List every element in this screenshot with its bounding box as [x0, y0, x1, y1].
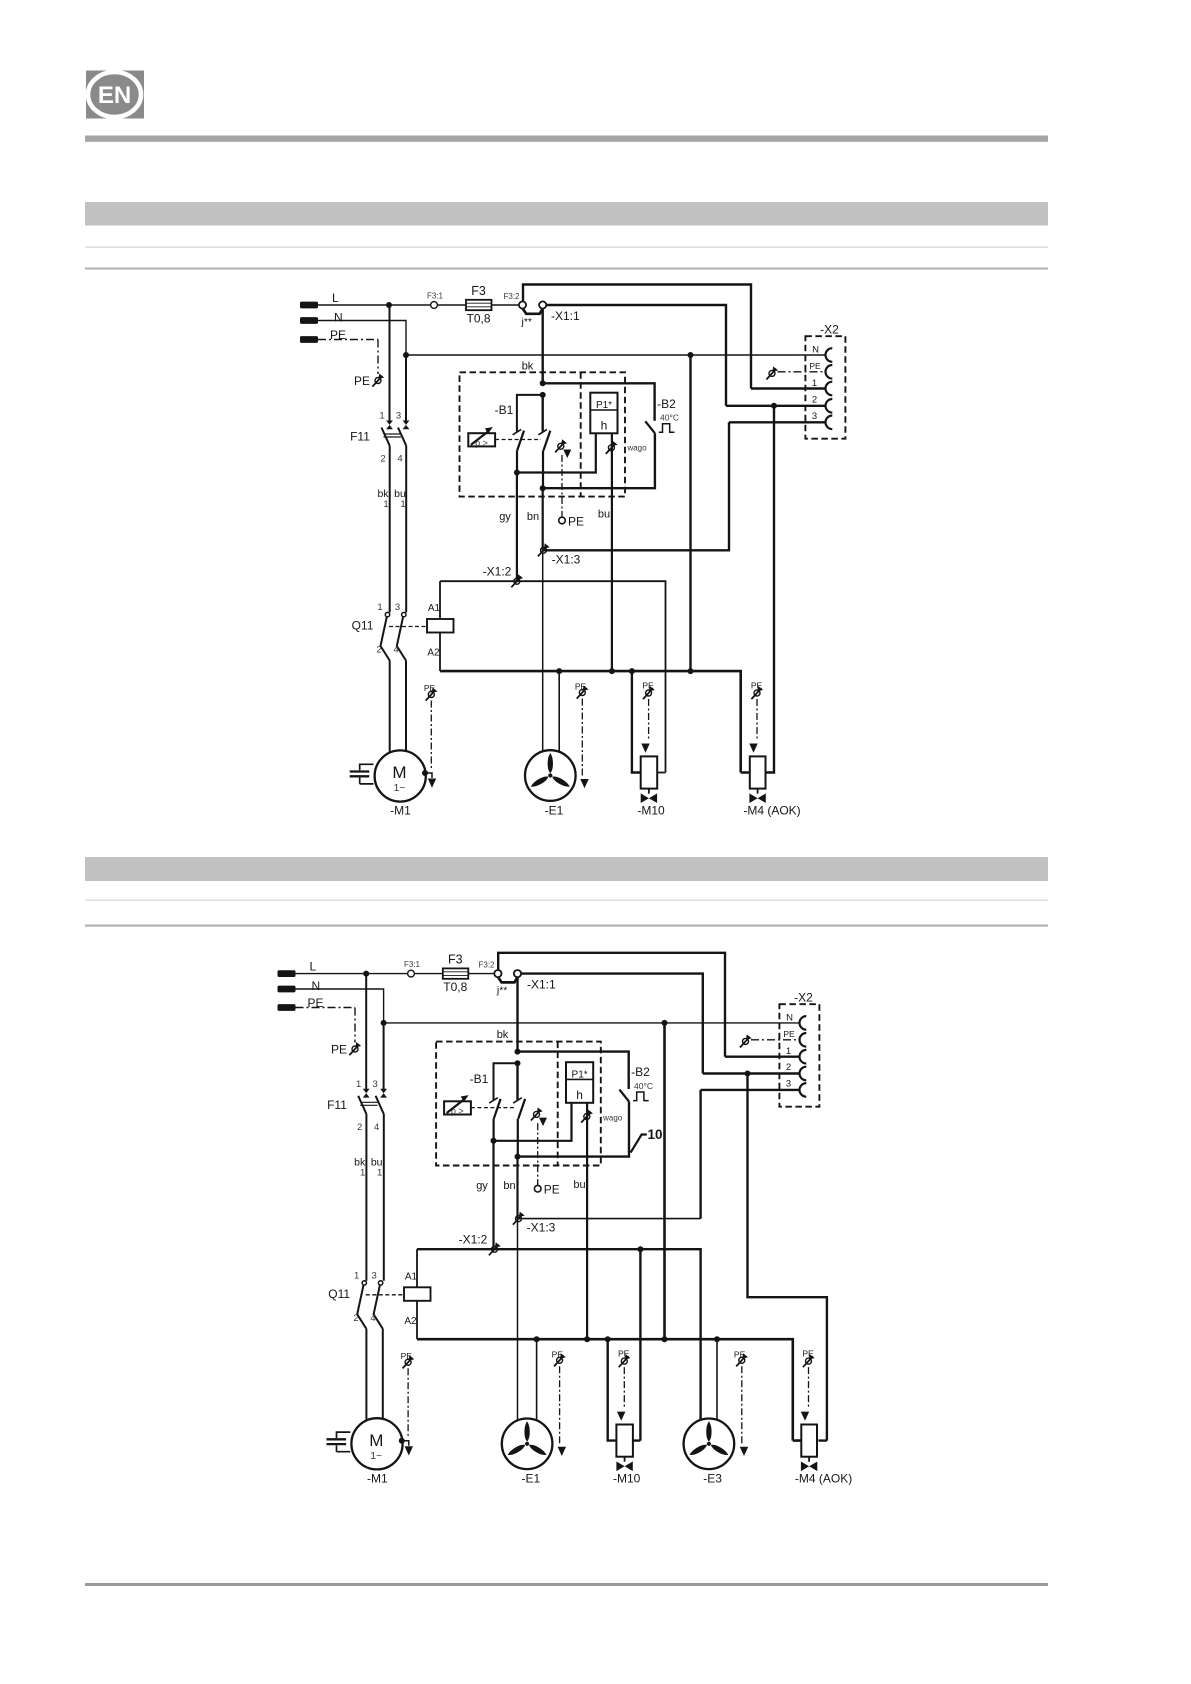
- svg-text:gy: gy: [476, 1180, 488, 1192]
- fuse F3: [466, 300, 492, 310]
- EN badge: [86, 71, 144, 119]
- svg-text:PE: PE: [331, 1043, 347, 1057]
- wire X1:2: [440, 581, 666, 772]
- wire neutral bus A2: [417, 1339, 801, 1440]
- svg-text:j**: j**: [496, 985, 508, 997]
- breaker F11 pole 2: [383, 1023, 385, 1089]
- wire N supply: [318, 321, 799, 356]
- svg-text:T0,8: T0,8: [443, 980, 467, 994]
- wire N vertical: [663, 1023, 666, 1339]
- wire PE dash-dot: [296, 1008, 356, 1043]
- wire to hour counter: [517, 433, 596, 472]
- node M10 left: [629, 668, 635, 674]
- svg-text:wago: wago: [626, 444, 647, 453]
- contactor Q11 pole 1: [385, 612, 389, 616]
- svg-text:bk: bk: [522, 361, 534, 373]
- svg-text:-M10: -M10: [613, 1472, 641, 1486]
- svg-text:F3:1: F3:1: [427, 292, 444, 301]
- svg-text:-X1:1: -X1:1: [551, 309, 580, 323]
- wire bu: [611, 433, 613, 671]
- capacitor M1: [337, 1432, 351, 1452]
- svg-text:-E1: -E1: [521, 1471, 540, 1485]
- svg-text:1: 1: [354, 1270, 359, 1281]
- DIAGRAM 2: [278, 953, 853, 1486]
- terminal N: [300, 317, 318, 324]
- terminal N: [278, 986, 296, 993]
- svg-text:2: 2: [376, 645, 381, 656]
- svg-text:F3:2: F3:2: [478, 961, 495, 970]
- svg-text:F3: F3: [448, 953, 463, 967]
- node N corner: [381, 1020, 387, 1026]
- jumper j**: [523, 309, 543, 314]
- motor M1: [351, 1418, 402, 1469]
- contact B1 left branch: [517, 395, 543, 432]
- svg-text:3: 3: [372, 1270, 377, 1281]
- contact B1.1 blade: [494, 1099, 501, 1141]
- wire to B2 top: [518, 1052, 629, 1089]
- svg-text:-X2: -X2: [794, 991, 813, 1005]
- connector X1:1 terminal: [539, 301, 546, 308]
- svg-text:F3: F3: [471, 284, 486, 298]
- svg-text:1: 1: [400, 499, 405, 510]
- wire M10 left: [608, 1339, 617, 1440]
- wire E1 right: [558, 671, 560, 752]
- svg-text:1: 1: [356, 1079, 361, 1090]
- wire E1 right: [536, 1339, 538, 1420]
- valve M10: [641, 756, 658, 788]
- svg-text:N: N: [334, 311, 343, 325]
- svg-text:bn: bn: [503, 1180, 515, 1192]
- node E1 right: [556, 668, 562, 674]
- PE drain terminal: [534, 1185, 541, 1192]
- node M4 branch: [771, 403, 777, 409]
- wire X1:3 to pin3: [518, 1218, 701, 1220]
- contactor Q11 pole 2: [378, 1281, 382, 1285]
- wire L supply: [318, 304, 519, 306]
- valve M4: [801, 1425, 817, 1457]
- svg-text:-X1:3: -X1:3: [527, 1221, 556, 1235]
- svg-text:2: 2: [357, 1122, 362, 1133]
- terminal L: [278, 970, 296, 977]
- node M4 branch: [745, 1071, 751, 1077]
- svg-text:M: M: [392, 763, 406, 782]
- wire bk from X1:1: [542, 309, 544, 384]
- wire bn: [516, 1157, 518, 1219]
- svg-text:1: 1: [379, 411, 384, 422]
- svg-text:1: 1: [377, 1167, 382, 1178]
- svg-text:2: 2: [353, 1313, 358, 1324]
- node L junction: [386, 302, 392, 308]
- svg-text:3: 3: [812, 411, 817, 422]
- svg-text:bn: bn: [527, 511, 539, 523]
- wire N supply: [296, 989, 800, 1023]
- svg-text:-B2: -B2: [657, 397, 676, 411]
- node bu bus: [584, 1336, 590, 1342]
- breaker F11 pole 1: [365, 974, 367, 1090]
- enclosure B1 dashed box: [460, 372, 626, 496]
- svg-text:P1*: P1*: [596, 400, 612, 411]
- wire neutral bus A2: [440, 671, 750, 772]
- node M10 right branch: [637, 1246, 643, 1252]
- wire X1:3 to pin3: [543, 422, 826, 550]
- contact B1.2: [542, 395, 544, 432]
- node gy junction: [514, 470, 520, 476]
- fan E1: [525, 750, 576, 801]
- breaker F11 pole 2: [405, 355, 407, 421]
- svg-text:-X1:2: -X1:2: [483, 565, 512, 579]
- node N bus: [688, 668, 694, 674]
- wire L riser to top: [498, 953, 799, 1057]
- Q11 linkage: [389, 626, 427, 628]
- node E1 right: [534, 1336, 540, 1342]
- linkage dashed: [495, 439, 541, 441]
- wire to B2 top: [543, 383, 655, 420]
- node bu bus: [609, 668, 615, 674]
- svg-text:2: 2: [786, 1062, 791, 1073]
- svg-text:1: 1: [383, 499, 388, 510]
- svg-text:-X1:3: -X1:3: [552, 553, 581, 567]
- svg-text:j**: j**: [521, 316, 533, 328]
- linkage dashed: [471, 1107, 516, 1109]
- node bn junction: [540, 485, 546, 491]
- wire L to pin2: [546, 305, 825, 406]
- svg-text:-X2: -X2: [820, 323, 839, 337]
- svg-text:-M4 (AOK): -M4 (AOK): [743, 804, 800, 818]
- svg-text:-E1: -E1: [545, 804, 564, 818]
- svg-text:4: 4: [397, 454, 402, 465]
- svg-text:40°C: 40°C: [634, 1081, 653, 1091]
- svg-text:F3:1: F3:1: [404, 960, 421, 969]
- wire to hour counter: [494, 1103, 572, 1141]
- svg-text:L: L: [310, 960, 317, 974]
- wire to M4 right: [766, 406, 775, 773]
- svg-text:N: N: [786, 1012, 793, 1023]
- node bn junction: [515, 1154, 521, 1160]
- svg-text:4: 4: [374, 1122, 379, 1133]
- fan E1: [502, 1419, 553, 1470]
- wire X1:2: [417, 1249, 701, 1420]
- terminal L: [300, 302, 318, 309]
- svg-text:T0,8: T0,8: [466, 312, 490, 326]
- wire E3 right: [716, 1339, 718, 1420]
- capacitor M1: [360, 764, 374, 784]
- svg-text:h: h: [601, 419, 608, 433]
- svg-text:Q11: Q11: [352, 619, 374, 633]
- node M10 left: [605, 1336, 611, 1342]
- svg-text:bk: bk: [497, 1029, 509, 1041]
- svg-text:A1: A1: [405, 1271, 418, 1282]
- DIAGRAM 1: [300, 284, 845, 818]
- valve M4: [750, 756, 766, 788]
- node N bus: [662, 1336, 668, 1342]
- svg-text:A1: A1: [428, 603, 441, 614]
- svg-text:bu: bu: [573, 1179, 585, 1191]
- svg-text:-B1: -B1: [470, 1072, 489, 1086]
- X2 PE shield: [766, 366, 778, 379]
- svg-text:-M4 (AOK): -M4 (AOK): [795, 1472, 852, 1486]
- PE shield symbol: [372, 374, 384, 387]
- svg-text:-M10: -M10: [637, 804, 665, 818]
- svg-text:-B1: -B1: [495, 403, 514, 417]
- coil Q11 A1-A2: [427, 619, 454, 633]
- svg-text:F11: F11: [327, 1098, 347, 1112]
- svg-text:gy: gy: [499, 511, 511, 523]
- svg-text:3: 3: [786, 1079, 791, 1090]
- svg-text:1~: 1~: [370, 1450, 382, 1462]
- wire gy: [516, 473, 518, 582]
- coil Q11 A1-A2: [404, 1287, 431, 1301]
- contactor Q11 pole 2: [402, 612, 406, 616]
- jumper j**: [498, 977, 517, 982]
- node bk/B2: [540, 380, 546, 386]
- svg-text:40°C: 40°C: [660, 413, 679, 423]
- wire bk from X1:1: [516, 977, 518, 1051]
- wire N to X2 pin N: [799, 354, 826, 356]
- wire L to pin2: [521, 974, 799, 1074]
- svg-text:-X1:1: -X1:1: [527, 978, 556, 992]
- node bk/B1: [540, 392, 546, 398]
- node bk/B2: [515, 1049, 521, 1055]
- X2 PE shield: [740, 1034, 752, 1047]
- F11 coupler: [384, 434, 401, 437]
- node bk/B1: [515, 1060, 521, 1066]
- connector X1:1 terminal: [514, 970, 521, 977]
- svg-text:bu: bu: [598, 509, 610, 521]
- wire PE dash-dot: [318, 340, 378, 375]
- svg-text:1: 1: [812, 378, 817, 389]
- pressure sensor p>: [444, 1101, 471, 1114]
- valve M10: [616, 1425, 633, 1457]
- svg-text:A2: A2: [427, 648, 440, 659]
- hour counter P1*: [566, 1062, 593, 1103]
- svg-text:4: 4: [393, 645, 398, 656]
- svg-text:1: 1: [786, 1046, 791, 1057]
- svg-text:P1*: P1*: [572, 1070, 588, 1081]
- svg-text:PE: PE: [809, 361, 821, 371]
- fuse F3: [443, 968, 469, 978]
- svg-text:-X1:2: -X1:2: [459, 1233, 488, 1247]
- svg-text:3: 3: [395, 602, 400, 613]
- svg-text:F11: F11: [350, 430, 370, 444]
- svg-text:N: N: [812, 345, 819, 356]
- svg-text:3: 3: [396, 411, 401, 422]
- wire to M4 right: [748, 1074, 827, 1441]
- switch B2: [645, 421, 655, 433]
- contact B1.1 blade: [517, 431, 524, 473]
- svg-text:h: h: [576, 1088, 583, 1102]
- connector X2: [805, 336, 845, 439]
- svg-text:N: N: [312, 979, 321, 993]
- switch B2: [619, 1090, 629, 1102]
- fuse F3:1 terminal: [431, 302, 438, 309]
- pressure sensor p>: [468, 433, 495, 446]
- svg-text:10: 10: [648, 1127, 663, 1142]
- svg-text:M: M: [369, 1431, 383, 1450]
- wire L riser to top: [523, 285, 826, 389]
- svg-text:-B2: -B2: [631, 1065, 650, 1079]
- fuse F3:1 terminal: [408, 970, 415, 977]
- svg-text:3: 3: [373, 1079, 378, 1090]
- wire gy: [492, 1141, 494, 1249]
- node gy junction: [491, 1138, 497, 1144]
- svg-text:-E3: -E3: [703, 1471, 722, 1485]
- svg-text:A2: A2: [404, 1316, 417, 1327]
- shield drain in B1: [531, 1107, 543, 1120]
- wire L supply: [296, 973, 495, 975]
- svg-text:L: L: [332, 291, 339, 305]
- svg-text:-M1: -M1: [367, 1471, 388, 1485]
- svg-text:Q11: Q11: [328, 1287, 350, 1301]
- hour counter P1*: [590, 393, 617, 434]
- wire bn: [542, 488, 544, 550]
- connector X2: [779, 1004, 819, 1106]
- svg-text:PE: PE: [544, 1183, 560, 1197]
- node L junction: [363, 971, 369, 977]
- fan E3: [684, 1419, 735, 1470]
- node N corner: [403, 352, 409, 358]
- wire M10 left: [632, 671, 641, 772]
- svg-text:1: 1: [377, 602, 382, 613]
- contact B1 left branch: [494, 1063, 518, 1100]
- svg-text:wago: wago: [602, 1114, 623, 1123]
- motor M1: [375, 750, 426, 801]
- svg-text:2: 2: [812, 395, 817, 406]
- wire N vertical: [689, 355, 691, 671]
- svg-text:PE: PE: [783, 1029, 795, 1039]
- breaker F11 pole 1: [389, 305, 391, 421]
- contactor Q11 pole 1: [362, 1281, 366, 1285]
- PE shield symbol: [349, 1042, 361, 1055]
- Q11 linkage: [366, 1294, 404, 1296]
- terminal PE: [300, 336, 318, 343]
- svg-text:4: 4: [370, 1313, 375, 1324]
- PE drain terminal: [559, 517, 566, 524]
- contact B1.2: [516, 1063, 518, 1100]
- wire bu: [586, 1103, 588, 1339]
- svg-text:PE: PE: [354, 374, 370, 388]
- enclosure B1 dashed box: [436, 1042, 601, 1166]
- callout 10: [631, 1135, 647, 1153]
- node E3 right: [714, 1336, 720, 1342]
- svg-text:2: 2: [380, 454, 385, 465]
- terminal PE: [278, 1004, 296, 1011]
- svg-text:PE: PE: [568, 515, 584, 529]
- svg-text:1: 1: [360, 1167, 365, 1178]
- svg-text:-M1: -M1: [390, 804, 411, 818]
- F11 coupler: [360, 1102, 377, 1105]
- svg-text:F3:2: F3:2: [503, 292, 520, 301]
- svg-text:EN: EN: [98, 82, 131, 109]
- svg-text:1~: 1~: [394, 782, 406, 794]
- shield drain in B1: [555, 439, 567, 452]
